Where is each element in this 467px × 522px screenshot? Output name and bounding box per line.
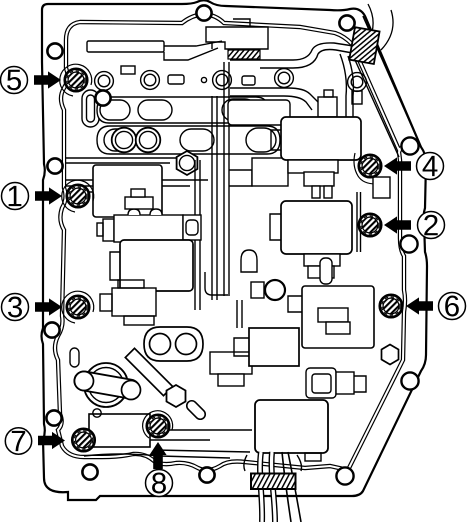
boss arcs around bolts bbox=[60, 64, 92, 96]
center vertical pipes bbox=[212, 62, 229, 300]
white box bottom-left bbox=[89, 414, 150, 447]
solenoid S1 bbox=[281, 117, 361, 160]
mid box bbox=[249, 328, 299, 366]
hex bolt center-top bbox=[177, 151, 198, 175]
solenoid S2 bbox=[281, 201, 352, 254]
callout 8 bbox=[146, 415, 173, 497]
solenoid box A bbox=[120, 240, 193, 291]
perimeter bolt holes bbox=[47, 43, 62, 58]
callout 5 bbox=[1, 67, 88, 94]
boss circles row bbox=[95, 66, 367, 104]
slot capsule top-left bbox=[82, 90, 99, 127]
hex bolt right bbox=[382, 345, 399, 365]
callout 6 bbox=[380, 293, 466, 320]
connector stack A bbox=[97, 189, 201, 242]
hex nut lower bbox=[167, 385, 186, 407]
small angled capsule bbox=[185, 399, 208, 422]
vertical slot handle bbox=[320, 258, 332, 284]
check ball bbox=[265, 280, 285, 300]
big box middle-left bbox=[93, 165, 162, 217]
valve rail 1 bbox=[97, 97, 268, 123]
top-right case diagonal bbox=[354, 4, 421, 157]
twin bores bbox=[112, 128, 137, 153]
valve rail 2 bbox=[97, 126, 280, 154]
lower-right cluster bbox=[306, 368, 336, 398]
elbow pipe upper bbox=[230, 43, 360, 60]
bottom mid connector bbox=[210, 352, 252, 374]
casting lines left-middle bbox=[66, 180, 208, 192]
bottom casting lines bbox=[150, 430, 252, 452]
check-ball dome bbox=[241, 250, 257, 272]
callout 1 bbox=[2, 183, 90, 210]
manual lever capsule bbox=[73, 370, 141, 400]
callout 4 bbox=[359, 153, 444, 180]
detent spring (rotated) bbox=[125, 348, 172, 395]
solenoid S3 big box bbox=[302, 286, 374, 348]
small block right bbox=[373, 177, 390, 198]
inner gasket contour (double bead) bbox=[55, 14, 405, 470]
callout 3 bbox=[2, 294, 90, 321]
small hatched strip bbox=[228, 50, 260, 59]
callout 2 bbox=[359, 212, 445, 239]
top manifold plate bbox=[206, 19, 268, 49]
elbow pipe lower bbox=[230, 88, 318, 102]
callout 7 bbox=[5, 428, 94, 454]
hatched band top-right bbox=[349, 27, 379, 64]
top pipe run bbox=[87, 41, 164, 52]
connector stack B bbox=[100, 280, 156, 325]
connector above solenoid 1 bbox=[318, 97, 337, 117]
solenoid S4 bbox=[255, 400, 328, 453]
hatched band bottom with wires bbox=[260, 452, 301, 522]
small slot left bbox=[70, 348, 79, 367]
manual shaft bbox=[84, 363, 128, 407]
outer flange outline bbox=[42, 0, 428, 500]
two-hole plate bottom bbox=[144, 327, 203, 361]
